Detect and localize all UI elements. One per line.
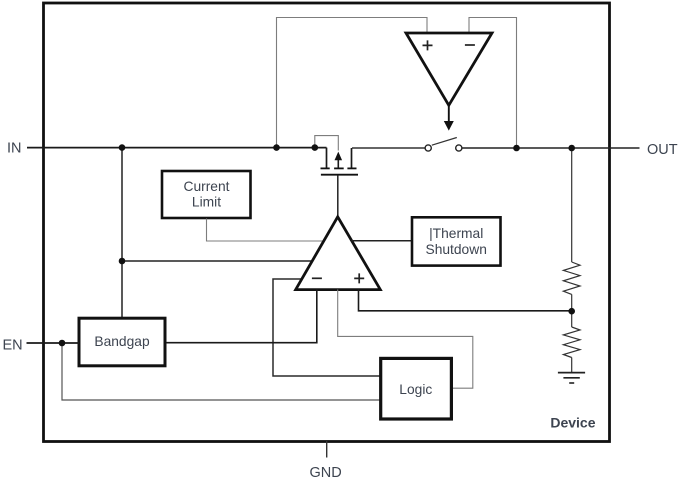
junction OUT rail / feedback divider — [568, 145, 575, 152]
junction OUT rail / comparator - input — [513, 145, 520, 152]
svg-text:Shutdown: Shutdown — [426, 242, 487, 257]
node FB divider midpoint — [568, 308, 575, 315]
junction IN rail / Q1 bulk loop — [312, 144, 319, 151]
wire R2 to ground — [571, 358, 573, 373]
svg-text:EN: EN — [3, 338, 23, 354]
svg-text:OUT: OUT — [647, 142, 678, 158]
svg-text:Limit: Limit — [192, 195, 221, 210]
op-amp U1 error amplifier — [296, 217, 381, 290]
junction IN rail / comparator + input — [273, 144, 280, 151]
wire Q1 bulk-to-source loop — [315, 136, 339, 151]
wire current limit to error amp — [207, 219, 324, 242]
junction EN / logic wire — [59, 340, 66, 347]
wire error amp left edge to logic — [273, 279, 381, 376]
block Bandgap — [79, 318, 165, 366]
switch S1 reverse-current disconnect — [425, 145, 431, 151]
device boundary box — [44, 3, 610, 442]
transistor Q1 PMOS pass FET — [326, 148, 328, 168]
resistor R2 — [563, 327, 580, 357]
wire IN rail — [27, 147, 327, 149]
wire node to error amp left edge — [122, 260, 312, 262]
block Thermal Shutdown — [412, 217, 501, 265]
wire OUT tap down to divider — [571, 148, 573, 262]
wire EN to logic — [62, 343, 381, 400]
block Logic — [381, 358, 452, 419]
wire error amp to thermal shutdown — [351, 240, 412, 242]
svg-text:|Thermal: |Thermal — [429, 226, 483, 241]
wire Q1 gate to error amp output — [337, 175, 339, 216]
ground symbol — [558, 372, 585, 374]
svg-text:Bandgap: Bandgap — [94, 334, 150, 349]
wire EN input — [27, 342, 80, 344]
wire OUT rail — [462, 147, 640, 149]
wire R1 to R2 — [571, 294, 573, 327]
block Current Limit — [162, 171, 251, 218]
wire error amp + input to feedback node — [359, 290, 572, 311]
op-amp U2 reverse-current comparator — [406, 33, 492, 105]
svg-text:GND: GND — [310, 465, 342, 479]
svg-text:IN: IN — [7, 141, 22, 157]
wire IN tap down to bandgap — [121, 148, 123, 318]
svg-text:Logic: Logic — [399, 382, 432, 397]
resistor R1 — [563, 262, 580, 294]
svg-text:Current: Current — [183, 179, 229, 194]
wire GND stub — [326, 441, 328, 458]
comparator output arrow — [448, 105, 450, 122]
wire error amp center to logic loop — [338, 290, 473, 389]
wire comparator + input loop to IN rail — [277, 18, 428, 148]
wire comparator - input loop to OUT rail — [469, 18, 517, 149]
wire bandgap output to error amp - input — [166, 290, 317, 343]
junction bandgap tap / error amp wire — [119, 258, 126, 265]
junction IN rail / bandgap tap — [119, 144, 126, 151]
wire Q1 drain to switch — [352, 147, 425, 149]
Q1 body-diode arrow — [337, 159, 339, 168]
svg-text:Device: Device — [550, 415, 595, 431]
